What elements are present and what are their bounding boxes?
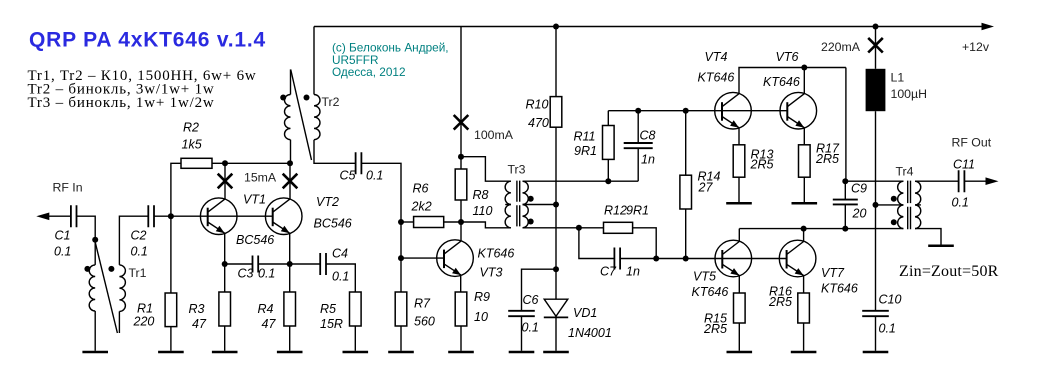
wire R16 to ground — [803, 323, 805, 351]
svg-text:VT3: VT3 — [480, 266, 503, 280]
svg-text:0.1: 0.1 — [131, 245, 148, 259]
svg-text:20: 20 — [852, 207, 867, 221]
svg-text:15mA: 15mA — [244, 171, 277, 185]
capacitor C7 — [614, 248, 620, 270]
resistor R6 — [414, 217, 444, 228]
svg-text:C11: C11 — [953, 158, 975, 172]
wire C2 to base node — [154, 215, 171, 217]
wire R9 to ground — [460, 326, 462, 351]
wire lower output wire — [739, 228, 903, 230]
node C9 bottom junction — [842, 226, 848, 232]
svg-text:VT5: VT5 — [693, 270, 716, 284]
capacitor C6 — [508, 311, 535, 316]
resistor R17 — [799, 145, 811, 177]
transformer Tr4 primary winding — [898, 181, 904, 228]
transistor VT5 — [715, 240, 752, 277]
wire C6 top — [522, 269, 557, 311]
svg-text:2k2: 2k2 — [411, 200, 432, 214]
wire R17 to ground — [803, 177, 805, 202]
capacitor C1 — [71, 205, 77, 227]
wire Tr3 center tap — [523, 204, 557, 206]
svg-text:15R: 15R — [320, 317, 343, 331]
node rail-R10 junction — [553, 24, 559, 30]
resistor R16 — [798, 293, 810, 323]
svg-text:KT646: KT646 — [698, 71, 735, 85]
svg-text:2R5: 2R5 — [750, 158, 774, 172]
wire R8 top stub — [460, 157, 462, 169]
wire VD1 to ground — [555, 317, 557, 350]
wire R11 top stub — [607, 111, 609, 126]
svg-text:R2: R2 — [183, 121, 199, 135]
svg-text:0.1: 0.1 — [258, 267, 275, 281]
svg-text:R5: R5 — [320, 302, 336, 316]
wire C8 top stub — [637, 111, 639, 143]
inductor L1 — [866, 69, 886, 111]
svg-text:C3: C3 — [238, 267, 254, 281]
svg-text:KT646: KT646 — [692, 285, 729, 299]
resistor R8 — [455, 169, 467, 200]
node VT2 emitter junction — [287, 261, 293, 267]
resistor R4 — [284, 292, 296, 326]
wire X1 to VT1 collector — [224, 163, 226, 199]
wire rail to X3 — [460, 27, 462, 157]
wire Tr1 secondary top lead — [119, 216, 148, 265]
wire C7 right leg — [620, 258, 656, 260]
ground R3 — [212, 351, 238, 354]
svg-text:Одесса, 2012: Одесса, 2012 — [332, 65, 406, 79]
svg-text:1N4001: 1N4001 — [568, 326, 612, 340]
node lower bus left junction — [653, 256, 659, 262]
svg-text:0.1: 0.1 — [332, 270, 349, 284]
wire VT7 emitter to R16 — [803, 276, 805, 294]
Tr3 primary mid tick — [505, 204, 511, 206]
svg-text:KT646: KT646 — [478, 247, 515, 261]
svg-text:220mA: 220mA — [821, 40, 861, 54]
svg-text:0.1: 0.1 — [366, 169, 383, 183]
svg-text:R9: R9 — [474, 290, 490, 304]
svg-text:R6: R6 — [413, 182, 429, 196]
svg-text:0.1: 0.1 — [879, 322, 896, 336]
wire VT3 base stub — [401, 257, 444, 259]
wire VT2 emitter node to C4 — [290, 263, 321, 265]
node C8 top junction — [635, 108, 641, 114]
svg-text:2R5: 2R5 — [815, 152, 839, 166]
wire VT1 emitter down — [224, 233, 226, 264]
svg-text:100µH: 100µH — [891, 87, 927, 101]
svg-text:R10: R10 — [526, 98, 549, 112]
wire R7 to ground — [400, 326, 402, 351]
node C2-R2-R1 junction — [168, 213, 174, 219]
node VT7 collector junction — [801, 226, 807, 232]
svg-text:KT646: KT646 — [763, 75, 800, 89]
wire Tr1 secondary bottom stub — [118, 311, 120, 333]
wire VT4 emitter to R13 — [738, 128, 740, 145]
wire R4 top — [289, 264, 291, 292]
wire C9 top stub — [844, 181, 846, 199]
svg-text:27: 27 — [698, 181, 714, 195]
wire VT5 collector up — [738, 229, 740, 242]
node R2-X1 junction — [222, 160, 228, 166]
wire VT6 emitter to R17 — [803, 128, 805, 145]
svg-text:0.1: 0.1 — [522, 321, 539, 335]
svg-text:R3: R3 — [189, 302, 205, 316]
wire RF In to C1 — [48, 215, 70, 217]
svg-text:VT4: VT4 — [705, 50, 728, 64]
transistor VT4 — [715, 92, 752, 129]
node R14 top junction — [683, 108, 689, 114]
node Tr4 center tap junction — [873, 202, 879, 208]
transformer Tr2 left winding — [285, 95, 291, 140]
resistor R1 — [165, 293, 177, 327]
wire emitter node to C3 — [225, 263, 253, 265]
wire R2 to VT1 collector node — [212, 162, 225, 164]
wire rail corner to Tr2 — [313, 27, 315, 95]
ground R9 — [448, 351, 474, 354]
wire node down to R1 — [170, 216, 172, 293]
svg-text:R7: R7 — [414, 297, 431, 311]
wire R14 bottom — [685, 209, 687, 259]
ground R15 — [727, 351, 753, 354]
svg-text:110: 110 — [473, 204, 493, 218]
transformer Tr2 left winding top stub — [290, 69, 292, 94]
capacitor C2 — [148, 205, 154, 227]
Tr3 polarity dot upper — [528, 196, 534, 202]
svg-text:C5: C5 — [340, 169, 356, 183]
Tr1 polarity dot left — [84, 266, 90, 272]
capacitor C3 — [253, 256, 259, 273]
Tr2 polarity dot left — [280, 95, 286, 101]
svg-text:KT646: KT646 — [821, 282, 858, 296]
wire +12V top rail — [314, 26, 990, 28]
wire R3 to ground — [224, 326, 226, 351]
capacitor C9 — [833, 200, 858, 205]
resistor R13 — [733, 145, 745, 177]
Tr4 core — [908, 181, 911, 230]
svg-text:0.1: 0.1 — [952, 196, 969, 210]
svg-text:VT6: VT6 — [776, 50, 799, 64]
node rail-L1 junction — [873, 24, 879, 30]
svg-text:Tr3 – бинокль, 1w+ 1w/2w: Tr3 – бинокль, 1w+ 1w/2w — [28, 95, 215, 111]
resistor R10 — [550, 97, 562, 128]
wire C9 bottom stub — [844, 204, 846, 228]
fuse mark X4 220mA — [868, 38, 883, 53]
wire upper base bus — [608, 110, 787, 112]
wire C8 riser — [637, 148, 639, 181]
Tr2 slash — [291, 70, 312, 161]
wire R15 to ground — [738, 323, 740, 351]
wire Tr2 left winding bottom lead — [290, 140, 292, 164]
svg-text:QRP PA 4xKT646 v.1.4: QRP PA 4xKT646 v.1.4 — [29, 29, 266, 52]
svg-text:RF In: RF In — [53, 181, 83, 195]
fuse mark X3 100mA — [454, 115, 469, 130]
svg-text:RF Out: RF Out — [952, 136, 992, 150]
Tr3 polarity dot lower — [528, 219, 534, 225]
svg-text:560: 560 — [414, 315, 435, 329]
wire Tr4 center tap — [876, 204, 904, 206]
resistor R9 — [455, 292, 467, 326]
wire center tap to C10 — [875, 205, 877, 311]
fuse mark X2 — [283, 174, 298, 189]
node R8 top junction — [458, 154, 464, 160]
svg-text:C4: C4 — [332, 247, 348, 261]
Tr2 polarity dot right — [304, 95, 310, 101]
resistor R12 — [604, 222, 633, 233]
svg-text:1k5: 1k5 — [182, 138, 202, 152]
transformer Tr4 secondary winding — [915, 181, 921, 228]
transistor VT3 — [437, 240, 474, 277]
node Tr3 center tap junction — [553, 202, 559, 208]
wire Tr3 top drive — [523, 180, 639, 182]
svg-text:VD1: VD1 — [573, 306, 597, 320]
svg-text:220: 220 — [133, 315, 155, 329]
resistor R3 — [219, 292, 231, 326]
svg-text:+12v: +12v — [962, 40, 990, 54]
wire rail to X4 — [875, 27, 877, 69]
ground R4 — [277, 351, 303, 354]
Tr4 polarity dot upper — [891, 196, 897, 202]
node C1-Tr1 junction — [92, 237, 98, 243]
svg-text:L1: L1 — [891, 71, 905, 85]
transformer Tr3 primary winding — [505, 181, 511, 228]
wire Tr1 primary to ground — [94, 311, 96, 351]
svg-text:VT1: VT1 — [243, 193, 266, 207]
svg-text:2R5: 2R5 — [703, 322, 727, 336]
wire L1 to Tr4 center tap — [875, 111, 877, 205]
node R12-C7 junction — [576, 225, 582, 231]
wire base node to VT1 VT2 bases — [171, 215, 273, 217]
resistor R2 — [181, 158, 212, 168]
transistor VT7 — [779, 240, 816, 277]
Tr3 core — [517, 181, 520, 227]
svg-text:R8: R8 — [473, 188, 489, 202]
wire Tr1 primary top lead — [94, 240, 96, 265]
svg-text:Zin=Zout=50R: Zin=Zout=50R — [899, 263, 999, 280]
wire R10 column — [555, 27, 557, 97]
ground VD1 — [543, 351, 569, 354]
node VT6 collector junction — [801, 65, 807, 71]
wire C1 to Tr1 node — [77, 216, 96, 240]
svg-text:1n: 1n — [626, 265, 640, 279]
svg-text:C7: C7 — [600, 265, 617, 279]
transformer Tr3 secondary winding — [523, 181, 529, 228]
transistor VT6 — [780, 92, 817, 129]
wire Tr4 secondary top to C11 — [915, 180, 958, 182]
capacitor C4 — [320, 253, 326, 275]
svg-text:BC546: BC546 — [236, 233, 274, 247]
svg-text:R11: R11 — [574, 130, 596, 144]
RF In arrowhead — [36, 213, 49, 221]
wire C5 to R6 column — [361, 163, 401, 292]
svg-text:VT7: VT7 — [821, 266, 845, 280]
wire VT5 emitter to R15 — [738, 276, 740, 294]
svg-text:47: 47 — [262, 317, 277, 331]
wire node up to R2 — [171, 163, 181, 216]
ground C10 — [863, 351, 889, 354]
ground R16 — [791, 351, 817, 354]
transformer Tr1 primary winding — [89, 265, 95, 311]
svg-text:R4: R4 — [258, 302, 274, 316]
capacitor C11 — [959, 170, 965, 192]
ground Tr1 — [82, 351, 108, 354]
svg-text:VT2: VT2 — [316, 195, 339, 209]
Tr4 polarity dot lower — [891, 219, 897, 225]
svg-text:10: 10 — [474, 310, 488, 324]
wire C4 to R5 — [326, 264, 355, 292]
svg-text:9R1: 9R1 — [626, 204, 649, 218]
wire R14 top — [685, 111, 687, 176]
ground R7 — [388, 351, 414, 354]
resistor R5 — [350, 292, 362, 326]
wire collectors down to Tr4 top — [845, 68, 847, 182]
wire Tr2 right winding to C5 — [314, 140, 356, 164]
svg-text:Tr3: Tr3 — [508, 163, 526, 177]
node R6 left junction — [398, 219, 404, 225]
wire VT4 collector up — [739, 68, 846, 94]
wire top output wire — [845, 180, 903, 182]
node R14 bottom junction — [683, 256, 689, 262]
RF Out arrowhead — [986, 177, 999, 185]
svg-text:C1: C1 — [55, 229, 71, 243]
svg-text:C2: C2 — [131, 229, 147, 243]
svg-text:Tr2: Tr2 — [322, 95, 340, 109]
ground R1 — [158, 351, 184, 354]
resistor R11 — [603, 126, 615, 160]
wire R6 left stub — [401, 221, 414, 223]
ground R17 — [792, 202, 818, 205]
wire X2 to VT2 collector — [289, 163, 291, 199]
wire Tr3 primary top L — [461, 157, 511, 182]
Tr4 secondary mid tick — [915, 204, 921, 206]
node R11 bottom junction — [605, 178, 611, 184]
wire R3 top — [224, 264, 226, 292]
wire C6 to ground — [521, 316, 523, 351]
node Tr2-X2 junction — [287, 160, 293, 166]
Tr1 slash — [95, 240, 118, 333]
wire VT3 collector up — [460, 222, 462, 241]
resistor R7 — [395, 292, 407, 326]
wire R12 to lower bus — [633, 228, 657, 259]
wire R6 right stub — [444, 221, 461, 223]
node C9 top junction — [842, 178, 848, 184]
svg-text:C6: C6 — [523, 293, 539, 307]
wire VT2 emitter down — [289, 233, 291, 264]
svg-text:47: 47 — [192, 317, 207, 331]
ground R5 — [343, 351, 369, 354]
svg-text:C9: C9 — [851, 182, 867, 196]
capacitor C10 — [862, 311, 889, 316]
wire VD1 anode — [555, 269, 557, 299]
node VT1 emitter junction — [222, 261, 228, 267]
ground R13 — [726, 202, 752, 205]
wire Tr4 secondary bottom to ground — [915, 229, 941, 245]
wire R4 to ground — [289, 326, 291, 351]
node VT3 base junction — [398, 255, 404, 261]
capacitor C5 — [356, 152, 362, 174]
node R8-R6-VT3 junction — [458, 219, 464, 225]
wire R11 bottom stub — [607, 159, 609, 181]
+12V arrowhead — [982, 23, 995, 30]
svg-text:R12: R12 — [604, 204, 627, 218]
resistor R14 — [680, 175, 692, 209]
svg-text:2R5: 2R5 — [768, 295, 792, 309]
wire C11 to RF Out — [965, 180, 986, 182]
svg-text:Tr4: Tr4 — [896, 165, 914, 179]
wire X1 to VT2 collector node — [225, 162, 290, 164]
svg-text:R1: R1 — [137, 302, 153, 316]
svg-text:0.1: 0.1 — [54, 245, 71, 259]
wire VT6 collector up — [803, 68, 805, 94]
resistor R15 — [734, 293, 746, 323]
Tr1 polarity dot right — [108, 266, 114, 272]
wire R5 to ground — [354, 326, 356, 351]
svg-text:100mA: 100mA — [474, 128, 514, 142]
wire Tr3 primary bottom L — [461, 222, 511, 228]
transformer Tr1 secondary winding — [119, 265, 125, 312]
node C6-VD1 junction — [553, 266, 559, 272]
ground Tr4 — [928, 244, 954, 247]
wire R13 to ground — [738, 177, 740, 202]
capacitor C8 — [624, 143, 653, 148]
svg-text:C8: C8 — [640, 129, 656, 143]
svg-text:Tr1: Tr1 — [129, 266, 147, 280]
svg-text:BC546: BC546 — [314, 217, 352, 231]
wire VT7 collector up — [803, 229, 805, 242]
svg-text:9R1: 9R1 — [574, 144, 597, 158]
wire R1 to ground — [170, 327, 172, 351]
wire lower base bus — [656, 258, 786, 260]
wire VT3 emitter down — [460, 275, 462, 292]
transistor VT2 — [265, 198, 302, 235]
wire C3 to VT2 emitter node — [258, 263, 290, 265]
diode VD1 — [544, 299, 568, 316]
wire R8 bottom stub — [460, 200, 462, 222]
fuse mark X1 15mA — [218, 174, 233, 189]
wire Tr3 bottom drive to R12 — [523, 227, 604, 229]
svg-text:470: 470 — [528, 116, 549, 130]
svg-text:C10: C10 — [879, 293, 902, 307]
transistor VT1 — [200, 198, 237, 235]
svg-text:1n: 1n — [641, 153, 655, 167]
wire R10 to VD1 — [555, 127, 557, 269]
wire C7 left leg — [579, 228, 614, 259]
wire C10 to ground — [875, 316, 877, 351]
transformer Tr2 right winding — [314, 95, 320, 140]
ground C6 — [509, 351, 535, 354]
